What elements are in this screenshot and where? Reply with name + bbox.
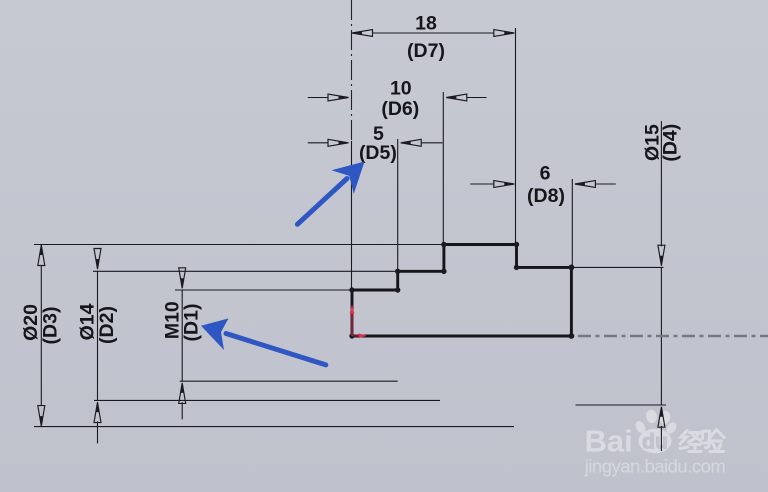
dimension 6 line xyxy=(470,183,616,185)
horizontal centerline (grey dash-dot) xyxy=(578,335,768,338)
dimension d20 line xyxy=(40,266,42,406)
dimension 18 line xyxy=(373,32,494,34)
svg-text:(D7): (D7) xyxy=(407,40,445,62)
dimension d15 line xyxy=(660,121,662,451)
watermark chinese jingyan xyxy=(680,430,724,452)
extension line x=397.7 xyxy=(397,139,399,290)
dimension 10 line xyxy=(308,97,487,99)
blue annotation arrow 2 (points to D1) xyxy=(201,318,326,365)
dimension d14 line xyxy=(97,271,99,444)
part profile outline xyxy=(352,245,571,337)
vertical centerline (dash-dot) xyxy=(351,0,353,141)
extension line x=443.3 xyxy=(442,92,444,271)
extension line x=351.5 solid xyxy=(351,141,353,290)
svg-text:(D8): (D8) xyxy=(527,185,565,207)
ext line y=426.6 (d20 bottom) xyxy=(34,426,514,428)
svg-text:(D5): (D5) xyxy=(359,142,397,164)
watermark paw logo xyxy=(634,409,679,453)
ext line y=290 (M10 top) xyxy=(175,289,352,291)
dimension M10 line xyxy=(181,290,183,419)
ext line y=381.2 (M10 bottom) xyxy=(180,380,398,382)
svg-text:10: 10 xyxy=(390,78,412,100)
ext line y=267.4 (d15 top) xyxy=(571,266,663,268)
svg-text:(D3): (D3) xyxy=(40,307,62,345)
ext line y=400.4 (d14 bottom) xyxy=(94,399,440,401)
extension line x=572.3 xyxy=(571,179,573,267)
ext line y=405 (d15 bottom) xyxy=(576,404,667,406)
baidu watermark xyxy=(584,409,726,476)
svg-text:Bai: Bai xyxy=(585,424,633,459)
svg-text:(D6): (D6) xyxy=(381,98,419,120)
svg-text:jingyan.baidu.com: jingyan.baidu.com xyxy=(584,455,726,476)
svg-text:(D1): (D1) xyxy=(181,304,203,342)
dimension 5 line xyxy=(308,142,443,144)
extension line x=515.5 xyxy=(515,28,517,245)
ext line y=271.3 (d14 top) xyxy=(93,270,398,272)
svg-text:(D4): (D4) xyxy=(659,124,681,162)
svg-text:18: 18 xyxy=(415,13,437,35)
blue annotation arrow 1 (points to D5) xyxy=(297,162,364,225)
ext line y=244.5 (d20 top) xyxy=(34,244,444,246)
svg-text:du: du xyxy=(642,431,668,454)
origin marker red vertical arrow xyxy=(350,305,355,337)
part vertex dots xyxy=(349,242,574,339)
svg-text:(D2): (D2) xyxy=(96,306,118,344)
svg-text:6: 6 xyxy=(540,163,551,185)
origin marker red horizontal arrow xyxy=(353,333,367,338)
